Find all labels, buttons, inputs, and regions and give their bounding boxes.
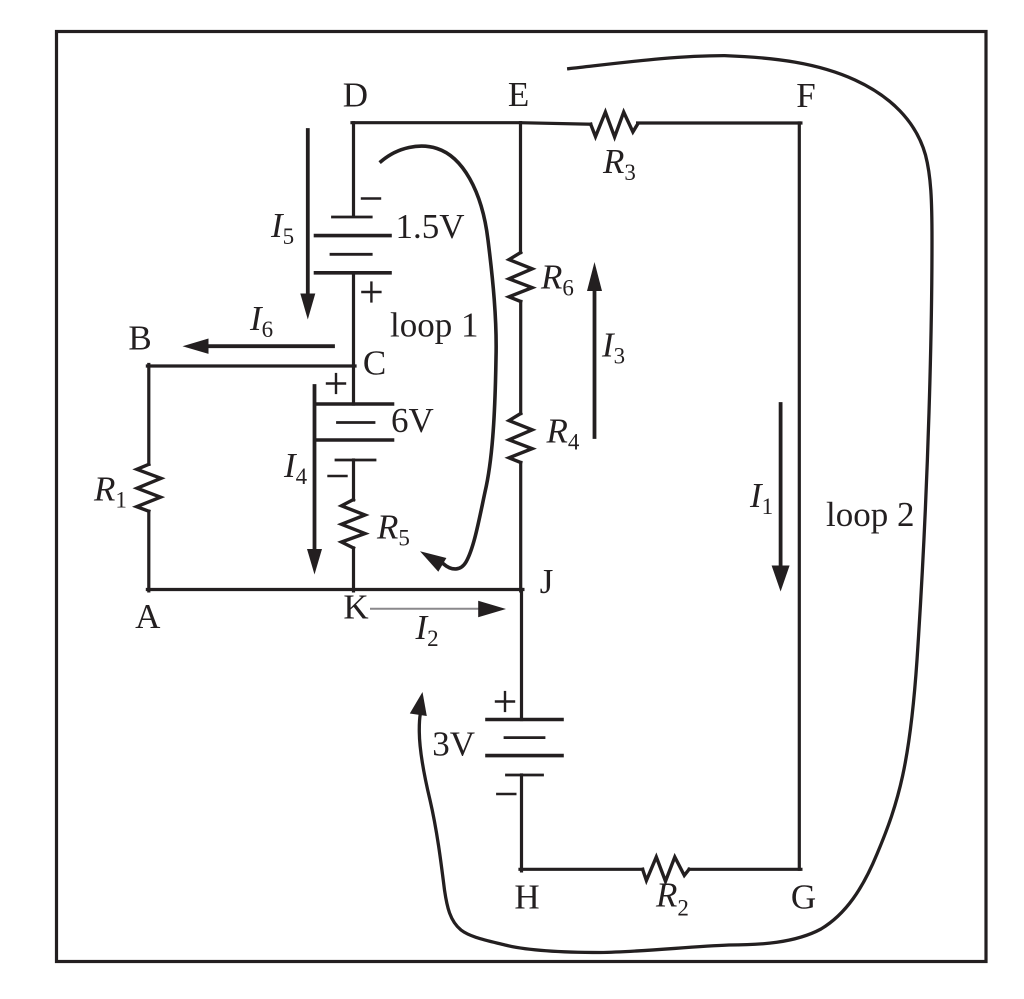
svg-text:R4: R4	[546, 412, 580, 455]
current arrow I4	[313, 386, 317, 550]
svg-text:R6: R6	[540, 258, 574, 301]
svg-text:D: D	[343, 76, 368, 115]
current arrow I2	[371, 608, 479, 610]
resistor R5	[342, 500, 366, 549]
arrowhead I1	[772, 566, 790, 592]
battery 6V	[318, 404, 393, 460]
wire E-R3	[521, 123, 591, 125]
wire R3-F	[638, 121, 801, 124]
arrowhead I4	[307, 549, 322, 575]
wire R6-R4	[519, 302, 522, 414]
wire F-G	[798, 123, 801, 869]
current arrow I1	[779, 404, 783, 566]
polarity - (1.5V)	[362, 197, 380, 199]
svg-text:G: G	[791, 878, 816, 917]
resistor R2	[643, 857, 690, 881]
svg-text:H: H	[514, 878, 539, 917]
svg-text:E: E	[508, 75, 529, 114]
wire B-C	[147, 364, 355, 367]
current arrow I3	[593, 290, 597, 437]
wire R5-K	[352, 548, 355, 591]
wire J-3V	[520, 590, 523, 720]
wire 1.5V-C-6V	[352, 273, 355, 404]
wire D-battery1.5V	[352, 123, 355, 216]
svg-text:C: C	[363, 344, 386, 383]
battery 1.5V	[316, 217, 391, 273]
svg-text:B: B	[128, 319, 151, 358]
wire R1-A	[147, 511, 150, 591]
arrowhead loop 1	[420, 551, 446, 572]
battery 3V	[487, 720, 562, 776]
polarity - (3V)	[497, 793, 515, 795]
polarity + (1.5V)	[362, 283, 380, 302]
svg-text:J: J	[540, 562, 554, 601]
wire R2-G	[689, 868, 801, 871]
svg-text:R2: R2	[655, 876, 689, 921]
wire 3V-H	[520, 775, 523, 871]
wire D-E	[352, 121, 521, 124]
svg-text:I6: I6	[249, 299, 273, 342]
arrowhead I2	[478, 601, 506, 617]
arrowhead I5	[300, 294, 315, 320]
svg-text:R3: R3	[602, 142, 636, 185]
svg-text:I1: I1	[749, 476, 773, 519]
polarity - (6V)	[329, 475, 347, 477]
arrowhead I3	[587, 262, 602, 291]
wire R4-J	[519, 463, 522, 591]
svg-text:R5: R5	[376, 508, 410, 551]
current arrow I6	[208, 344, 333, 348]
svg-text:A: A	[135, 597, 161, 636]
wire A-J	[147, 588, 523, 591]
svg-text:loop 1: loop 1	[390, 306, 478, 345]
loop 1 arrow	[381, 146, 496, 569]
wire H-R2	[520, 868, 643, 871]
svg-text:I2: I2	[415, 608, 439, 651]
svg-text:3V: 3V	[432, 725, 475, 764]
svg-text:6V: 6V	[391, 401, 434, 440]
resistor R1	[137, 464, 161, 511]
resistor R4	[509, 414, 532, 463]
svg-text:1.5V: 1.5V	[396, 207, 465, 246]
resistor R3	[591, 112, 638, 137]
resistor R6	[509, 253, 532, 302]
svg-text:K: K	[343, 588, 368, 627]
svg-text:I3: I3	[601, 326, 625, 369]
svg-text:loop 2: loop 2	[826, 495, 914, 534]
svg-text:R1: R1	[93, 470, 127, 513]
polarity + (3V)	[496, 692, 514, 711]
svg-text:I5: I5	[270, 206, 294, 249]
svg-text:I4: I4	[283, 446, 308, 489]
wire E-R6	[519, 123, 522, 253]
loop 2 arrow	[419, 56, 932, 953]
wire B-R1	[147, 365, 150, 465]
current arrow I5	[306, 130, 310, 294]
polarity + (6V)	[327, 374, 345, 393]
wire 6V-R5	[352, 460, 355, 500]
arrowhead loop 2	[410, 692, 427, 716]
svg-text:F: F	[796, 76, 815, 115]
arrowhead I6	[183, 339, 209, 354]
